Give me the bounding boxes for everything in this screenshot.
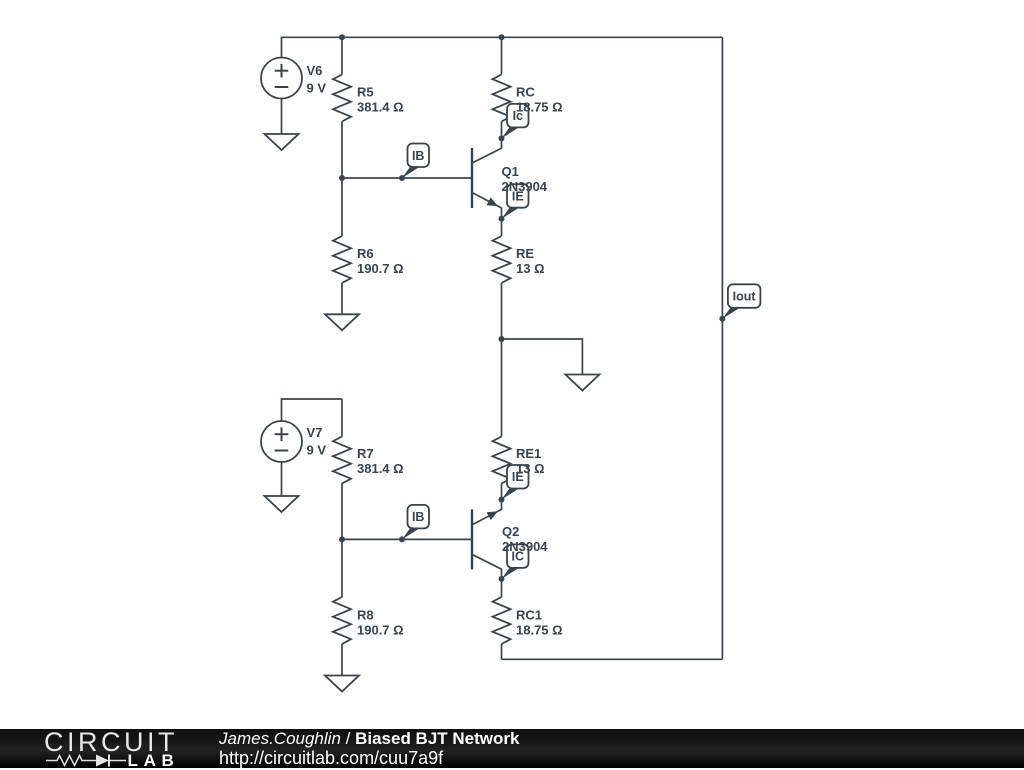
resistor RC: [493, 75, 511, 122]
wire: [341, 539, 343, 597]
wire: [281, 99, 283, 135]
node base1: [339, 175, 345, 181]
CircuitLab brand: [44, 729, 178, 756]
wire: [501, 339, 503, 437]
svg-text:IB: IB: [412, 510, 425, 524]
svg-text:381.4 Ω: 381.4 Ω: [357, 461, 404, 476]
svg-text:IB: IB: [412, 149, 425, 163]
svg-text:2N3904: 2N3904: [502, 179, 548, 194]
svg-text:190.7 Ω: 190.7 Ω: [357, 261, 404, 276]
resistor RE: [493, 236, 511, 283]
svg-text:R8: R8: [357, 607, 374, 622]
svg-text:9 V: 9 V: [307, 442, 327, 457]
resistor R7: [333, 437, 351, 484]
flag Ic (Q1 collector): [502, 127, 520, 138]
svg-text:V7: V7: [307, 425, 323, 440]
wire: [501, 579, 503, 597]
resistor R6: [333, 236, 351, 283]
voltage source V6: [261, 58, 302, 99]
ground: [265, 496, 299, 512]
wire: [501, 283, 503, 339]
ground: [325, 676, 359, 692]
svg-text:381.4 Ω: 381.4 Ω: [357, 100, 404, 115]
svg-text:Q1: Q1: [502, 164, 519, 179]
wire: [501, 644, 503, 659]
wire: [341, 283, 343, 314]
svg-text:Q2: Q2: [502, 524, 519, 539]
wire: [341, 178, 343, 236]
flag IC (Q2 collector): [502, 568, 520, 579]
svg-text:R5: R5: [357, 85, 374, 100]
wire: [341, 644, 343, 676]
wire: [341, 484, 343, 540]
svg-text:2N3904: 2N3904: [502, 539, 548, 554]
svg-text:V6: V6: [307, 63, 323, 78]
svg-text:13 Ω: 13 Ω: [516, 461, 545, 476]
wire: [341, 399, 343, 437]
svg-text:RE: RE: [516, 246, 534, 261]
flag IE (Q2 emitter): [502, 489, 520, 500]
flag Iout: [722, 308, 740, 319]
author / title: [219, 730, 519, 747]
wire: [341, 122, 343, 179]
url: [219, 749, 443, 767]
logo resistor zigzag: [46, 755, 96, 765]
wire: [342, 538, 472, 540]
wire: [341, 37, 343, 74]
flag IB (Q2 base): [402, 528, 420, 539]
resistor R5: [333, 75, 351, 122]
node A: [339, 34, 345, 40]
svg-text:Iout: Iout: [733, 290, 757, 304]
resistor R8: [333, 597, 351, 644]
svg-text:9 V: 9 V: [307, 80, 327, 95]
wire: [502, 658, 723, 660]
wire: [501, 219, 503, 236]
voltage source V7: [261, 421, 302, 462]
svg-text:RC1: RC1: [516, 607, 542, 622]
wire: [342, 177, 472, 179]
svg-text:190.7 Ω: 190.7 Ω: [357, 622, 404, 637]
wire: [282, 399, 343, 421]
svg-text:R7: R7: [357, 446, 374, 461]
wire: [281, 462, 283, 496]
flag IB (Q1 base): [402, 167, 420, 178]
ground: [265, 134, 299, 150]
transistor Q2: [471, 509, 473, 569]
transistor Q1: [471, 148, 473, 208]
wire: [721, 37, 723, 659]
node B: [499, 34, 505, 40]
ground: [325, 314, 359, 330]
node base2: [339, 536, 345, 542]
footer bar: [0, 729, 1024, 768]
wire: [342, 36, 502, 38]
node mid: [499, 336, 505, 342]
svg-text:18.75 Ω: 18.75 Ω: [516, 100, 563, 115]
wire: [501, 484, 503, 500]
wire: [502, 36, 723, 38]
svg-text:RC: RC: [516, 85, 535, 100]
resistor RE1: [493, 437, 511, 484]
svg-text:18.75 Ω: 18.75 Ω: [516, 622, 563, 637]
svg-text:RE1: RE1: [516, 446, 541, 461]
wire: [501, 37, 503, 74]
wire: [282, 37, 343, 57]
wire: [501, 122, 503, 139]
wire: [502, 339, 583, 375]
svg-text:13 Ω: 13 Ω: [516, 261, 545, 276]
svg-text:R6: R6: [357, 246, 374, 261]
logo diode: [96, 754, 109, 766]
ground: [565, 375, 599, 391]
flag IE (Q1 emitter): [502, 208, 520, 219]
resistor RC1: [493, 597, 511, 644]
